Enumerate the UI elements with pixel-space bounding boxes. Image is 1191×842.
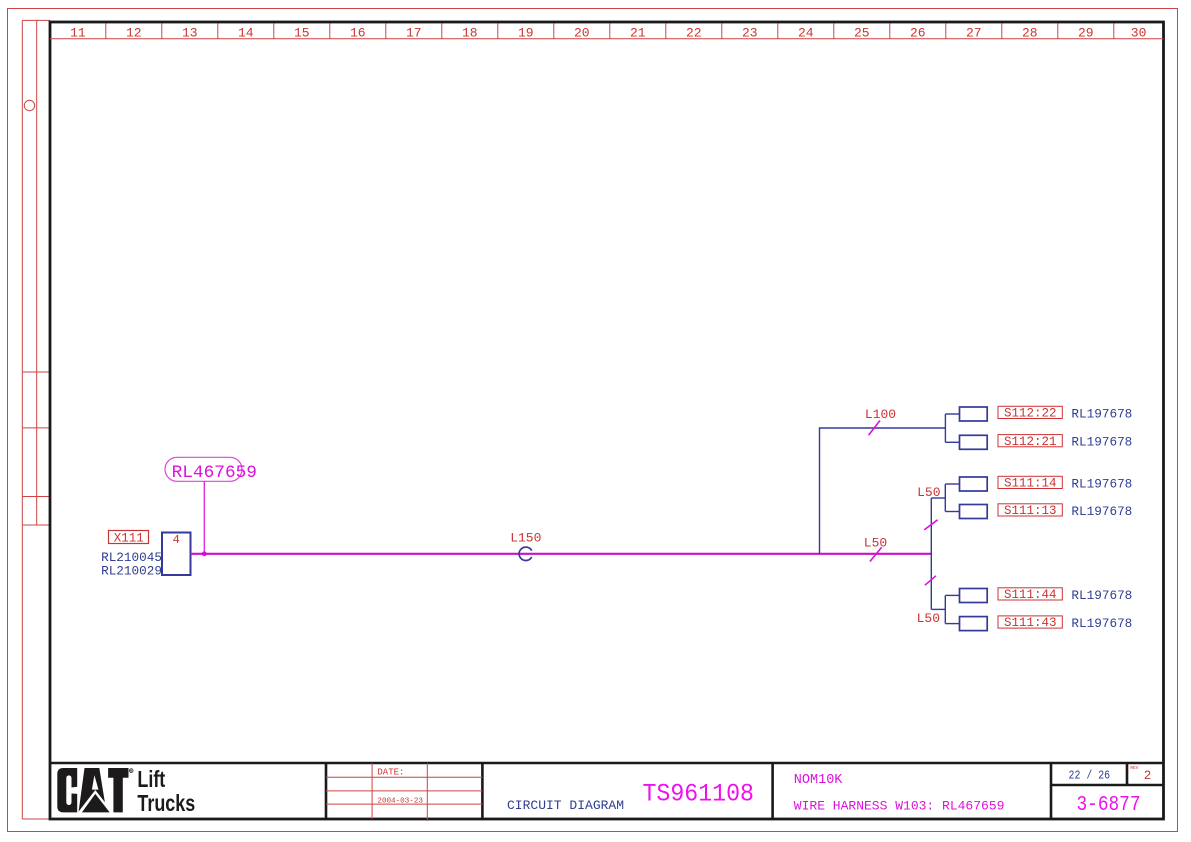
splice terminal boxes — [960, 407, 988, 631]
svg-text:RL467659: RL467659 — [172, 463, 257, 483]
connector X111 label — [109, 531, 149, 546]
svg-text:25: 25 — [854, 26, 870, 41]
lower branch — [931, 595, 959, 623]
svg-text:CIRCUIT DIAGRAM: CIRCUIT DIAGRAM — [507, 798, 624, 813]
svg-text:2004-03-23: 2004-03-23 — [377, 797, 423, 805]
splice S111:13 — [998, 504, 1132, 519]
svg-text:27: 27 — [966, 26, 982, 41]
svg-text:30: 30 — [1131, 26, 1147, 41]
svg-text:23: 23 — [742, 26, 758, 41]
svg-text:RL197678: RL197678 — [1071, 616, 1132, 631]
svg-text:11: 11 — [70, 26, 86, 41]
leader from RL467659 to wire — [203, 481, 205, 554]
CAT logo — [57, 768, 133, 813]
svg-text:S111:13: S111:13 — [1004, 504, 1057, 518]
svg-text:Lift: Lift — [137, 767, 165, 793]
svg-text:RL197678: RL197678 — [1071, 476, 1132, 491]
svg-text:18: 18 — [462, 26, 478, 41]
svg-text:17: 17 — [406, 26, 422, 41]
svg-text:19: 19 — [518, 26, 534, 41]
splice branch vertical (mid) — [931, 484, 959, 609]
wire L100 branch — [820, 414, 960, 554]
svg-text:TS961108: TS961108 — [643, 780, 755, 809]
svg-text:L50: L50 — [917, 611, 940, 626]
svg-text:NOM10K: NOM10K — [794, 773, 844, 788]
svg-text:RL197678: RL197678 — [1071, 406, 1132, 421]
date table red grid — [326, 763, 482, 821]
svg-text:22 / 26: 22 / 26 — [1069, 769, 1111, 783]
svg-text:RL210029: RL210029 — [101, 564, 162, 579]
L50 slash on main wire — [870, 547, 882, 561]
svg-text:REV: REV — [1130, 765, 1139, 771]
svg-text:4: 4 — [173, 533, 180, 547]
column ruler — [50, 23, 1164, 38]
svg-text:S111:44: S111:44 — [1004, 588, 1057, 602]
letter C — [57, 768, 77, 812]
svg-text:2: 2 — [1144, 769, 1152, 783]
svg-text:16: 16 — [350, 26, 366, 41]
svg-text:20: 20 — [574, 26, 590, 41]
title block frame — [50, 763, 1164, 819]
letter T — [108, 768, 128, 812]
L150 loop symbol — [519, 547, 532, 560]
svg-text:15: 15 — [294, 26, 310, 41]
svg-text:L50: L50 — [917, 485, 940, 500]
svg-text:L50: L50 — [864, 536, 887, 551]
registered mark — [129, 769, 133, 773]
svg-text:DATE:: DATE: — [377, 767, 404, 777]
svg-text:12: 12 — [126, 26, 142, 41]
logo triangle — [77, 790, 113, 813]
svg-text:Trucks: Trucks — [137, 791, 195, 817]
logo wordmark Lift Trucks — [137, 767, 195, 817]
junction node on wire — [202, 551, 207, 556]
svg-text:13: 13 — [182, 26, 198, 41]
svg-text:24: 24 — [798, 26, 814, 41]
svg-text:26: 26 — [910, 26, 926, 41]
L100 wire-count slash — [869, 421, 881, 436]
svg-text:X111: X111 — [114, 531, 144, 545]
svg-text:L150: L150 — [510, 531, 541, 546]
svg-text:22: 22 — [686, 26, 702, 41]
splice S111:14 — [998, 476, 1132, 491]
svg-text:28: 28 — [1022, 26, 1038, 41]
svg-text:S111:43: S111:43 — [1004, 616, 1057, 630]
L50 slash lower — [925, 576, 936, 585]
connector X111 body — [162, 533, 191, 576]
letter A — [79, 768, 107, 812]
svg-text:WIRE HARNESS W103: RL467659: WIRE HARNESS W103: RL467659 — [794, 799, 1005, 814]
main harness wire W103 — [191, 553, 932, 555]
svg-text:L100: L100 — [865, 407, 896, 422]
harness label RL467659 oval — [165, 457, 257, 483]
svg-text:RL197678: RL197678 — [1071, 435, 1132, 450]
svg-text:S112:22: S112:22 — [1004, 407, 1057, 421]
svg-text:S111:14: S111:14 — [1004, 477, 1057, 491]
splice S111:43 — [998, 616, 1132, 631]
svg-text:21: 21 — [630, 26, 646, 41]
splice S111:44 — [998, 588, 1132, 603]
svg-text:RL197678: RL197678 — [1071, 504, 1132, 519]
L50 slash upper — [924, 520, 937, 530]
splice S112:21 — [998, 435, 1132, 450]
left filing strip — [22, 20, 50, 819]
svg-text:RL197678: RL197678 — [1071, 588, 1132, 603]
svg-text:3-6877: 3-6877 — [1077, 794, 1141, 817]
svg-text:29: 29 — [1078, 26, 1094, 41]
splice S112:22 — [998, 406, 1132, 421]
svg-text:14: 14 — [238, 26, 254, 41]
svg-text:S112:21: S112:21 — [1004, 435, 1057, 449]
